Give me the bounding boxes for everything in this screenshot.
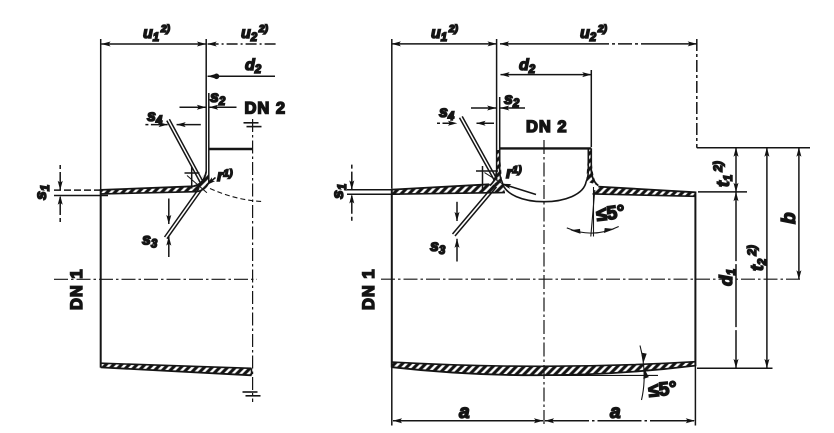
dimension s1 (right figure) xyxy=(347,165,400,221)
svg-text:DN 2: DN 2 xyxy=(526,118,568,136)
run top wall inner line (left figure) xyxy=(101,183,209,194)
dimension t1 (right figure) xyxy=(735,148,737,192)
dimension u2 (left figure, half view, dash-dot trailing) xyxy=(208,43,276,45)
dimension s3 (left figure) xyxy=(168,199,170,258)
bottom wall end closure at symmetry line (left figure) xyxy=(251,368,253,375)
extension line branch end plane right (right figure) xyxy=(697,147,810,149)
dimension a right half (right figure) xyxy=(545,420,695,422)
run bottom wall hatch (right figure) xyxy=(392,362,696,376)
svg-text:d1: d1 xyxy=(716,269,738,286)
svg-text:u12): u12) xyxy=(431,23,459,44)
dimension b (right figure) xyxy=(798,148,800,280)
svg-text:s3: s3 xyxy=(430,238,446,257)
dimension d2 (right figure) xyxy=(501,74,592,76)
run top wall hatch right segment (right figure) xyxy=(593,187,696,197)
branch left wall inner line (right figure) xyxy=(500,97,502,181)
symmetry break mark bottom (left figure) xyxy=(243,392,261,396)
svg-text:DN 1: DN 1 xyxy=(360,268,378,310)
svg-text:b: b xyxy=(779,212,800,224)
run top wall outer line (left figure) xyxy=(101,186,194,190)
symmetry centerline of branch (left figure) xyxy=(252,119,254,402)
svg-text:r1): r1) xyxy=(506,164,522,182)
dimension s2 (right figure) xyxy=(471,107,525,109)
run bottom wall outer line (left figure) xyxy=(101,367,252,375)
run axis centerline (right figure) xyxy=(381,278,802,280)
angle reference horizontal line bottom (right figure) xyxy=(544,374,658,376)
svg-text:t12): t12) xyxy=(711,161,735,187)
symmetry break mark top (left figure) xyxy=(244,123,262,127)
angle leader lower 5 deg (right figure) xyxy=(640,346,649,401)
crotch inner curve (right figure) xyxy=(502,181,586,201)
svg-text:s2: s2 xyxy=(210,89,226,108)
run top wall outer line left segment (right figure) xyxy=(392,184,490,189)
svg-text:DN 1: DN 1 xyxy=(68,268,86,310)
angle reference lines below right branch wall (right figure) xyxy=(591,187,595,237)
dimension d2 (left figure, arrow plus dot) xyxy=(208,74,275,80)
svg-text:u12): u12) xyxy=(143,23,171,44)
pipe right end edge (right figure) xyxy=(694,192,696,426)
branch left wall hatch (right figure) xyxy=(490,150,502,186)
dimension a left half (right figure) xyxy=(393,420,543,422)
run bottom wall outer line (right figure) xyxy=(392,366,696,376)
pipe left end edge (right figure) xyxy=(391,39,393,426)
weld zone slant double line s4 (right figure) xyxy=(460,116,498,181)
dimension s1 (left figure) xyxy=(54,165,108,222)
branch right wall outer line (right figure) xyxy=(591,148,598,185)
dimension s2 (left figure) xyxy=(180,106,237,108)
svg-text:a: a xyxy=(610,402,621,423)
svg-text:≤5°: ≤5° xyxy=(647,378,678,402)
extension line d2 right wall (right figure) xyxy=(590,70,592,147)
weld zone slant double line s3 (left figure) xyxy=(165,188,202,238)
svg-text:s2: s2 xyxy=(504,91,520,110)
fillet radius center cross (right figure) xyxy=(476,166,498,190)
extension line bottom outer right (right figure) xyxy=(697,367,773,369)
dimension d1 (right figure) xyxy=(735,192,737,368)
branch left wall outer line (right figure) xyxy=(490,39,497,186)
fillet radius center cross (left figure) xyxy=(185,167,200,189)
crotch fillet outer curve (left figure) xyxy=(194,172,207,187)
svg-text:u22): u22) xyxy=(241,23,269,44)
run top wall inner line right segment (right figure) xyxy=(593,194,696,196)
run bottom wall inner line (right figure) xyxy=(392,362,696,367)
branch inner wall line (left figure) xyxy=(208,93,210,183)
svg-text:s4: s4 xyxy=(439,104,455,123)
run bottom wall hatch (left figure) xyxy=(101,363,252,375)
radius leader arrow r1) (left figure) xyxy=(187,176,207,193)
svg-text:s4: s4 xyxy=(147,108,163,127)
run top wall hatch left segment (right figure) xyxy=(392,181,505,194)
svg-text:s1: s1 xyxy=(33,185,52,200)
dimension s3 (right figure) xyxy=(456,202,458,262)
weld zone slant double line s4 (left figure) xyxy=(167,119,204,183)
run axis centerline (left figure) xyxy=(54,278,257,280)
svg-text:t22): t22) xyxy=(745,245,769,271)
angle arc with arrows upper 5 deg (right figure) xyxy=(567,227,619,234)
dimension t2 (right figure) xyxy=(766,148,768,368)
svg-text:s3: s3 xyxy=(142,232,158,251)
extension line top outer right (right figure) xyxy=(698,191,747,193)
pipe left end edge (left figure) xyxy=(100,39,102,368)
svg-text:u22): u22) xyxy=(580,23,608,44)
weld zone slant double line s3 (right figure) xyxy=(453,185,497,236)
run top wall hatch (left figure) xyxy=(101,173,209,194)
radius leader arrow r1) (right figure) xyxy=(485,173,504,185)
dimension u1 (left figure) xyxy=(102,43,207,45)
svg-text:≤5°: ≤5° xyxy=(595,202,626,226)
svg-text:s1: s1 xyxy=(330,184,349,199)
svg-text:d2: d2 xyxy=(245,57,262,76)
svg-text:DN 2: DN 2 xyxy=(245,100,287,118)
dimension u1 (right figure) xyxy=(392,43,497,45)
run bottom wall inner line (left figure) xyxy=(101,363,252,368)
extension line u2 right (right figure) xyxy=(696,39,698,148)
svg-text:a: a xyxy=(459,402,470,423)
branch right wall hatch (right figure) xyxy=(586,150,598,186)
branch end rim (right figure) xyxy=(500,147,592,149)
branch end rim (left figure) xyxy=(209,148,253,151)
branch outer wall line (left figure) xyxy=(205,39,207,172)
dashed crotch arc (left figure) xyxy=(210,189,262,202)
dimension s4 (left figure) xyxy=(145,124,200,126)
run top wall inner line left segment (right figure) xyxy=(392,193,505,195)
branch axis centerline (right figure) xyxy=(543,140,545,426)
run top wall outer line right segment (right figure) xyxy=(598,187,695,193)
branch right wall inner line (right figure) xyxy=(586,148,588,181)
svg-text:r1): r1) xyxy=(217,168,233,186)
dimension s4 (right figure) xyxy=(437,122,494,124)
dimension u2 (right figure) xyxy=(500,43,697,45)
svg-text:d2: d2 xyxy=(519,57,536,76)
